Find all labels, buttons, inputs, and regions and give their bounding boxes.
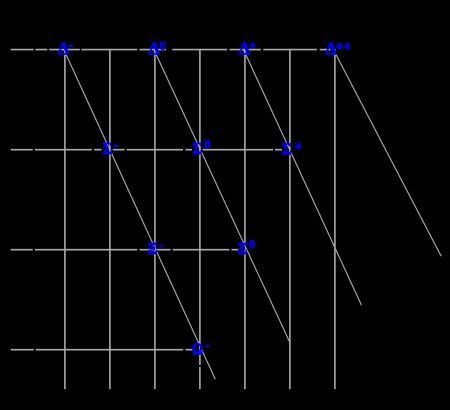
label Delta0 (149, 38, 166, 59)
label Delta+ (239, 39, 256, 59)
svg-text:Ω: Ω (192, 339, 203, 358)
svg-text:Σ: Σ (282, 139, 292, 158)
svg-text:Σ: Σ (192, 139, 202, 158)
vertical line x=289.9 (289, 49, 291, 389)
label Delta- (58, 38, 73, 58)
vertical line x=154.9 (154, 49, 156, 389)
svg-text:0: 0 (249, 237, 256, 252)
vertical line x=199.9 (small break below Omega label) (199, 49, 201, 365)
vertical line x=334.9 (334, 49, 336, 389)
svg-text:Δ: Δ (58, 38, 69, 58)
horizontal row 1 (Delta row), y=49.6, dashed segments (11, 49, 331, 51)
label Xi0 (238, 237, 256, 258)
label Xi- (148, 239, 163, 258)
svg-text:Δ: Δ (149, 39, 160, 59)
label Sigma- (103, 139, 118, 158)
label Sigma+ (282, 139, 302, 158)
svg-text:Δ: Δ (239, 39, 250, 59)
vertical line x=64.9 (64, 49, 66, 389)
svg-text:Ξ: Ξ (238, 239, 248, 258)
svg-text:0: 0 (159, 38, 166, 53)
diagonal Q=0 (Delta0 through Sigma0, Xi0) (154, 50, 290, 343)
diagonal Q=+1 (Delta+ through Sigma+) (244, 50, 362, 306)
label Omega- (192, 339, 209, 358)
horizontal row 3 (Xi row), y=249.7 (11, 249, 238, 251)
label Delta++ (326, 39, 351, 59)
diagonal Q=-1 (Delta- through Sigma-, Xi-, Omega-) (64, 50, 216, 380)
horizontal row 2 (Sigma row), y=149.7 (11, 149, 282, 151)
svg-text:Ξ: Ξ (148, 239, 158, 258)
horizontal row 4 (Omega row), y=349.7 (11, 349, 193, 351)
label Sigma0 (192, 137, 211, 158)
vertical line x=244.9 (244, 49, 246, 389)
svg-text:Σ: Σ (103, 139, 113, 158)
svg-text:Δ: Δ (326, 39, 337, 59)
vertical line x=109.9 (109, 49, 111, 389)
diagonal Q=+2 (Delta++) (333, 50, 441, 257)
svg-text:0: 0 (204, 137, 211, 152)
